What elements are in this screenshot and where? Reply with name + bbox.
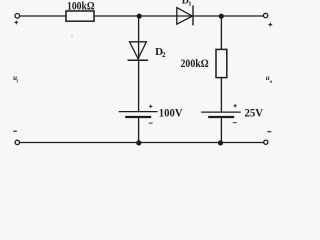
scan speck xyxy=(71,36,73,38)
wire top node to D2 xyxy=(138,16,140,60)
terminal output - (bottom-right) xyxy=(264,132,272,145)
bottom wire xyxy=(20,142,264,144)
wire 200k to battery 25V xyxy=(220,78,222,113)
svg-text:200kΩ: 200kΩ xyxy=(181,56,210,70)
label uo xyxy=(266,74,273,85)
wire battery 100V to bottom xyxy=(138,117,140,143)
wire D1 to right terminal xyxy=(193,15,263,17)
terminal input + (top-left) xyxy=(14,14,19,25)
node junction bottom middle xyxy=(136,140,141,145)
resistor 100kΩ xyxy=(66,0,95,21)
svg-text:100kΩ: 100kΩ xyxy=(67,0,95,13)
terminal input - (bottom-left) xyxy=(13,131,19,144)
resistor 200kΩ xyxy=(181,49,227,77)
node junction top middle xyxy=(137,14,142,19)
wire resistor to D1 xyxy=(94,15,193,17)
diode D2 xyxy=(128,42,167,60)
diode D1 xyxy=(177,0,193,25)
battery 25V xyxy=(201,104,263,123)
svg-text:25V: 25V xyxy=(245,106,264,120)
node junction bottom right xyxy=(218,140,223,145)
svg-text:1: 1 xyxy=(188,1,191,8)
wire battery 25V to bottom xyxy=(220,117,222,143)
wire D2 to battery 100V xyxy=(138,60,140,111)
wire top node to 200k xyxy=(220,16,222,49)
battery 100V xyxy=(119,105,183,123)
svg-text:2: 2 xyxy=(162,51,166,59)
terminal output + (top-right) xyxy=(263,13,272,26)
label ui xyxy=(13,74,18,85)
svg-text:100V: 100V xyxy=(159,105,183,119)
node junction top right xyxy=(219,14,224,19)
wire top-left xyxy=(20,15,66,17)
